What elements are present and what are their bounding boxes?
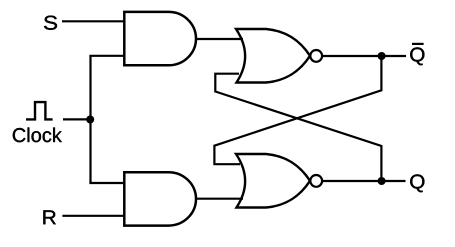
wire feedback Q to NOR U3 input [215, 74, 381, 181]
junction clock node [86, 116, 94, 124]
NOR gate U4 body [236, 154, 310, 208]
label Clock [13, 128, 62, 143]
label R [43, 210, 55, 224]
AND gate U1 [124, 12, 196, 65]
wire NOR U3 output to Qbar [323, 55, 406, 57]
junction node Qbar [378, 52, 386, 60]
NOR gate U3 body [236, 29, 310, 83]
NOR gate U4 output bubble [310, 175, 322, 187]
wire clock to AND U2 [89, 182, 125, 184]
wire feedback Qbar to NOR U4 input [214, 56, 381, 164]
wire clock stub [63, 118, 91, 120]
wire S input to AND U1 [62, 20, 125, 22]
wire AND U2 output to NOR U4 [195, 198, 243, 200]
wire clock vertical bus [89, 56, 91, 183]
wire AND U1 output to NOR U3 [195, 38, 243, 40]
NOR gate U3 output bubble [310, 50, 322, 62]
junction node Q [378, 177, 386, 185]
AND gate U2 [124, 172, 196, 225]
label Q [410, 174, 424, 192]
clock pulse symbol [26, 102, 53, 119]
wire R input to AND U2 [62, 215, 125, 217]
wire clock to AND U1 [89, 55, 125, 57]
label Qbar overbar [412, 43, 424, 45]
label Qbar [410, 47, 424, 65]
wire NOR U4 output to Q [323, 180, 406, 182]
label S [44, 16, 57, 30]
